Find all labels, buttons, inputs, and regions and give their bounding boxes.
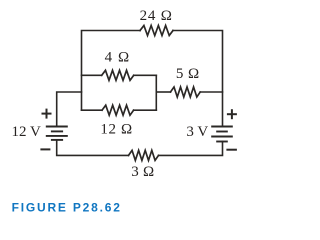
wire 5Ω branch right (200, 91, 222, 93)
battery 12 V left: long plate top (46, 126, 68, 128)
battery 12 V left: short plate bottom (51, 139, 63, 141)
minus sign left battery (40, 148, 50, 150)
svg-text:3 V: 3 V (186, 124, 208, 140)
wire parallel-box right column (155, 75, 157, 110)
battery 3 V right: long plate (211, 136, 233, 138)
battery 12 V left: long plate (46, 135, 68, 137)
wire 12Ω branch left (82, 109, 103, 111)
wire 4Ω branch right (134, 74, 157, 76)
svg-text:12 Ω: 12 Ω (100, 121, 132, 137)
wire battery feed left (57, 92, 82, 126)
wire 5Ω branch left (156, 91, 170, 93)
plus sign left battery (42, 109, 52, 119)
svg-text:FIGURE P28.62: FIGURE P28.62 (12, 201, 122, 215)
svg-text:5 Ω: 5 Ω (176, 66, 200, 82)
wire bottom rail right segment (159, 142, 223, 156)
wire 4Ω branch left (82, 74, 102, 76)
battery 12 V left: short plate (51, 130, 63, 132)
resistor 24Ω zigzag (140, 26, 173, 36)
battery 3 V right: long plate top (211, 126, 233, 128)
plus sign right battery (227, 109, 237, 119)
wire 12Ω branch right (134, 109, 157, 111)
resistor 3Ω zigzag (129, 150, 159, 160)
svg-text:24 Ω: 24 Ω (140, 8, 173, 24)
svg-text:12 V: 12 V (12, 124, 41, 140)
minus sign right battery (226, 149, 237, 151)
resistor 5Ω zigzag (171, 87, 201, 97)
resistor 4Ω zigzag (102, 70, 134, 80)
wire top rail right segment (173, 31, 223, 127)
battery 3 V right: short plate bottom (216, 141, 228, 143)
svg-text:4 Ω: 4 Ω (105, 49, 131, 65)
wire top rail left segment (82, 31, 141, 111)
wire left battery to bottom rail (57, 140, 129, 155)
battery 3 V right: short plate (216, 131, 228, 133)
svg-text:3 Ω: 3 Ω (131, 164, 154, 180)
resistor 12Ω zigzag (102, 105, 134, 115)
